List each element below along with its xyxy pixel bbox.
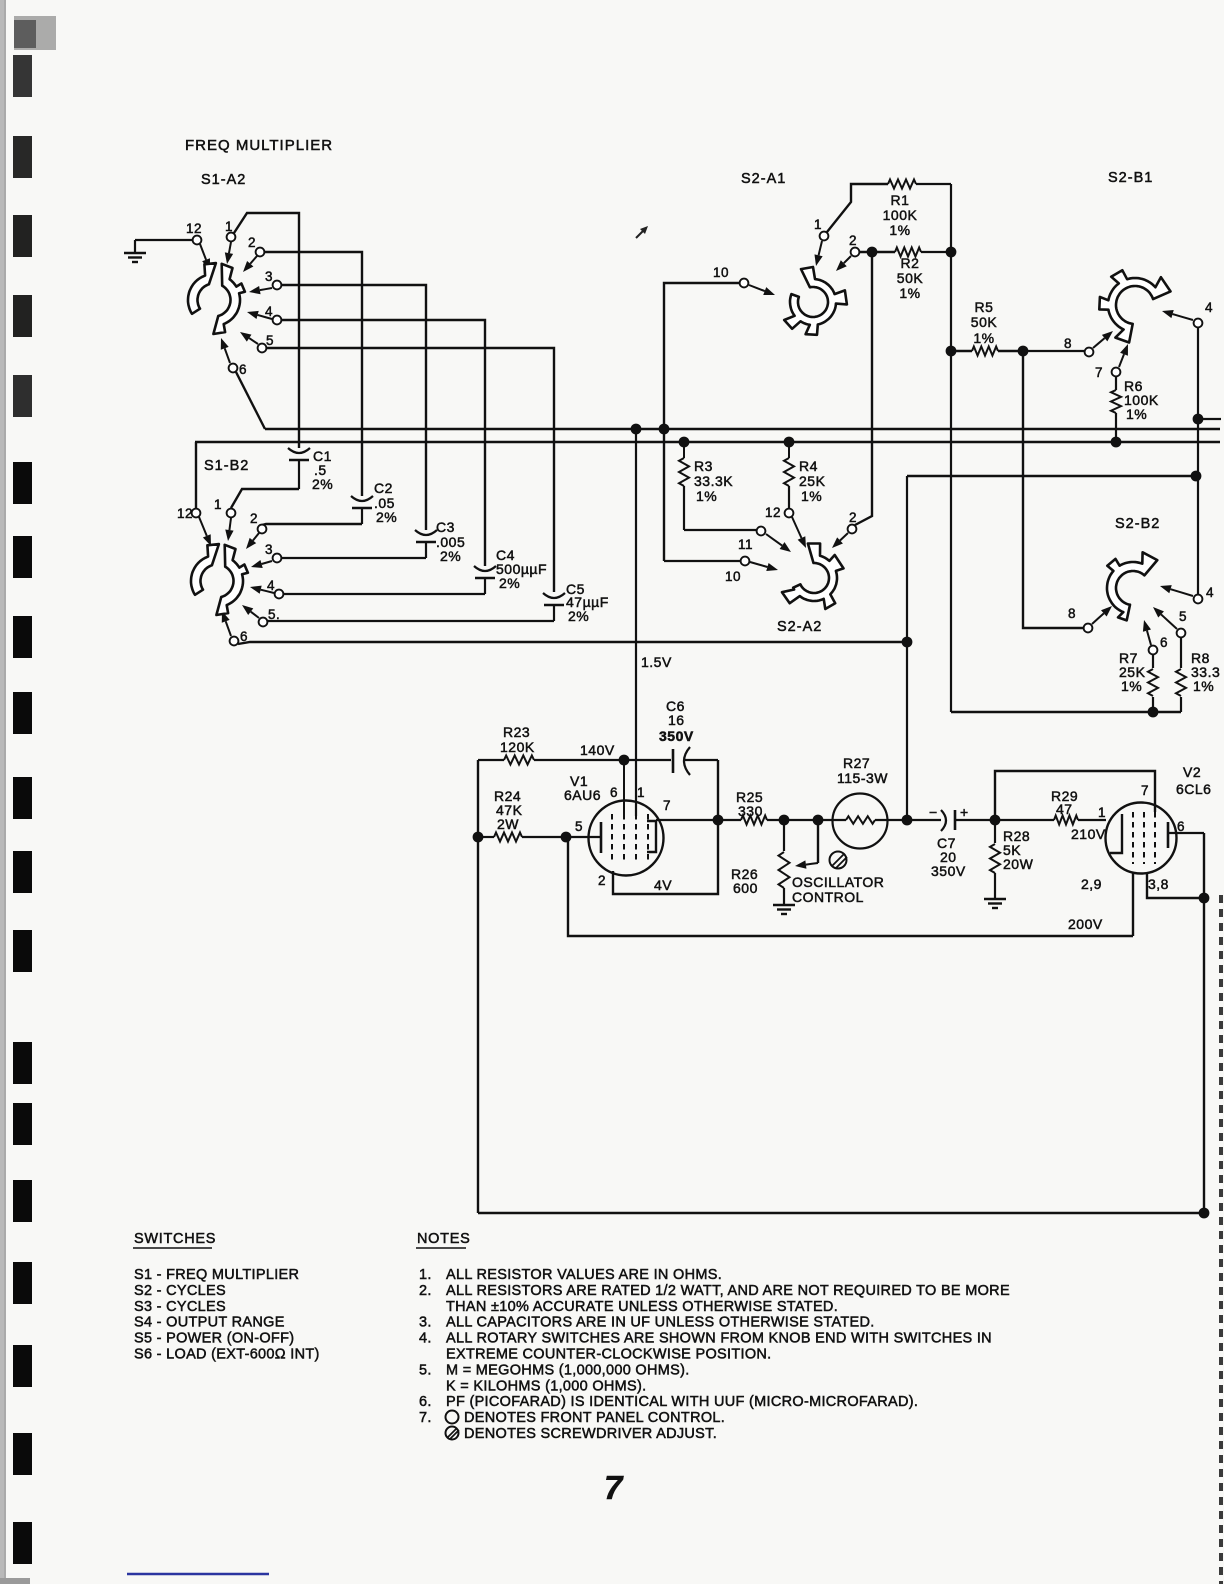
svg-text:S2-B2: S2-B2 (1115, 516, 1160, 532)
svg-text:ALL ROTARY SWITCHES ARE SHOWN: ALL ROTARY SWITCHES ARE SHOWN FROM KNOB … (446, 1331, 992, 1347)
svg-text:2W: 2W (497, 816, 519, 832)
svg-text:20W: 20W (1003, 856, 1034, 872)
S2-A2 contact 12 (785, 509, 794, 518)
svg-text:C2: C2 (374, 480, 393, 496)
svg-text:12: 12 (765, 505, 781, 520)
svg-text:1.5V: 1.5V (641, 654, 672, 670)
wire: S1-A2 c6 diagonal to bus A (236, 372, 265, 429)
svg-text:8: 8 (1068, 606, 1076, 621)
wire: main bus B (y=442) (195, 441, 1220, 443)
resistor R8 (1180, 638, 1182, 668)
wiper arrow 2 (844, 256, 851, 263)
svg-text:7.: 7. (419, 1410, 432, 1426)
note 7 screwdriver-adjust symbol (446, 1427, 459, 1440)
resistor R2 (895, 248, 921, 257)
svg-text:1.: 1. (419, 1267, 432, 1283)
svg-text:5: 5 (575, 819, 583, 834)
svg-text:2: 2 (849, 510, 857, 525)
svg-text:1%: 1% (889, 222, 910, 238)
svg-text:1%: 1% (973, 330, 994, 346)
ground R28 (984, 898, 1006, 900)
S2-B1 contact 7 (1112, 368, 1121, 377)
ground (S1-A2 pin 12) (124, 252, 146, 254)
svg-text:5.: 5. (419, 1362, 432, 1378)
svg-text:7: 7 (604, 1469, 624, 1506)
resistor R25 (741, 816, 767, 825)
svg-text:1: 1 (637, 785, 645, 800)
wire to S2-B1 contact 8 (1023, 350, 1084, 352)
junction R6 / bus B (1111, 437, 1122, 448)
screwdriver adjust symbol (830, 852, 847, 869)
svg-text:S2-A1: S2-A1 (741, 171, 786, 187)
svg-text:50K: 50K (971, 314, 998, 330)
resistor R7 (1152, 655, 1154, 668)
wire y476 to S2-B1 c4 column (907, 475, 1196, 477)
svg-text:3: 3 (265, 542, 273, 557)
svg-text:1%: 1% (1126, 406, 1147, 422)
svg-text:6: 6 (610, 785, 618, 800)
wiper arrow 8 (1093, 338, 1105, 348)
rotor S2-A1 (784, 267, 847, 335)
wiper arrow 3 (262, 561, 272, 564)
bottom-left grey corner (0, 1578, 30, 1584)
svg-text:R23: R23 (503, 724, 530, 740)
svg-text:5: 5 (1179, 609, 1187, 624)
wiper arrow 4 (261, 590, 274, 593)
blue pen line bottom (127, 1573, 269, 1575)
S2-B2 contact 4 (1194, 595, 1203, 604)
S1-A2 contact 12 (193, 236, 202, 245)
svg-text:25K: 25K (799, 473, 826, 489)
svg-text:2%: 2% (440, 548, 461, 564)
S2-A1 contact 2 (851, 248, 860, 257)
wire R4 to contact 12 (788, 486, 790, 508)
svg-text:50K: 50K (897, 270, 924, 286)
svg-text:DENOTES FRONT PANEL CONTROL.: DENOTES FRONT PANEL CONTROL. (464, 1410, 725, 1426)
wire: 200V rail (568, 837, 1133, 936)
wiper arrow 2 (250, 256, 257, 264)
svg-text:100K: 100K (883, 207, 918, 223)
S1-B2 contact 12 (192, 509, 201, 518)
wire: S1-A2 c2 to C2 riser (265, 252, 362, 496)
wire C5 bottom (553, 605, 555, 621)
wiper arrow 7 (1119, 354, 1124, 367)
svg-text:120K: 120K (500, 739, 535, 755)
wire C6 left (624, 759, 671, 761)
S2-B2 contact 5 (1177, 629, 1186, 638)
svg-text:2,9: 2,9 (1081, 876, 1102, 892)
ground R26 (773, 904, 795, 906)
junction R5 right / S2-B2 box riser (1018, 346, 1029, 357)
wiper arrow 2 (840, 533, 848, 540)
svg-text:12: 12 (186, 221, 202, 236)
wire C7 right (955, 819, 995, 821)
pin 5 lead (566, 836, 601, 838)
svg-text:4: 4 (1206, 585, 1214, 600)
svg-text:1%: 1% (1121, 678, 1142, 694)
svg-text:K = KILOHMS (1,000 OHMS).: K = KILOHMS (1,000 OHMS). (446, 1378, 647, 1394)
junction R3 top (679, 437, 690, 448)
wiper arrow 6 (1147, 631, 1151, 645)
V1 grids dashed (611, 814, 613, 862)
wire C2 bottom (361, 508, 363, 524)
svg-text:5.: 5. (268, 607, 280, 622)
svg-text:4.: 4. (419, 1331, 432, 1347)
junction x907 bottom (902, 815, 913, 826)
junction R2/x951 (946, 247, 957, 258)
svg-text:7: 7 (1141, 783, 1149, 798)
wire: main bus A (osc feedback, y=429) (265, 428, 1220, 430)
svg-text:C3: C3 (436, 519, 455, 535)
svg-text:600: 600 (733, 880, 758, 896)
svg-text:R1: R1 (891, 192, 910, 208)
wiper arrow 1 (229, 242, 231, 253)
wiper arrow 4 (1171, 589, 1193, 596)
resistor R28 (994, 820, 996, 843)
capacitor C7 (941, 810, 946, 831)
wire: S1-B2 c6 line to junction x907 (238, 642, 907, 644)
capacitor C3 (415, 530, 437, 535)
svg-text:16: 16 (668, 712, 685, 728)
junction bus A x635 riser (1.5V line) (631, 424, 642, 435)
S1-A2 contact 5 (258, 344, 267, 353)
svg-text:PF (PICOFARAD) IS IDENTICAL WI: PF (PICOFARAD) IS IDENTICAL WITH UUF (MI… (446, 1394, 918, 1410)
svg-text:S2-A2: S2-A2 (777, 619, 822, 635)
page left edge line (0, 0, 4, 1584)
svg-text:210V: 210V (1071, 826, 1106, 842)
top-left scan smudge (14, 16, 56, 50)
svg-text:OSCILLATOR: OSCILLATOR (792, 874, 884, 890)
svg-text:EXTREME COUNTER-CLOCKWISE POSI: EXTREME COUNTER-CLOCKWISE POSITION. (446, 1347, 772, 1363)
wiper arrow 3 (260, 288, 272, 290)
capacitor C4 (474, 566, 496, 571)
svg-text:33.3K: 33.3K (694, 473, 733, 489)
wire: S1-A2 c3 to C3 riser (282, 285, 426, 530)
junction R4 top (784, 437, 795, 448)
wiper arrow 12 (792, 517, 801, 538)
svg-text:V2: V2 (1183, 764, 1201, 780)
svg-text:S6 - LOAD (EXT-600Ω INT): S6 - LOAD (EXT-600Ω INT) (134, 1347, 320, 1363)
svg-text:1: 1 (225, 219, 233, 234)
svg-text:10: 10 (725, 569, 741, 584)
junction C7/R28/R29/feedback (990, 815, 1001, 826)
svg-text:1%: 1% (801, 488, 822, 504)
wire R3 to contact 11 (684, 529, 756, 531)
S2-B1 contact 4 (1194, 319, 1203, 328)
wire: S2-B1 c4 down to S2-B2 c4 (1197, 328, 1199, 594)
rheostat R26 (783, 820, 785, 851)
wire: feedback to V2 pin 7 (995, 771, 1155, 820)
note 7 front-panel circle symbol (446, 1411, 459, 1424)
junction plate rail/3,8 (1199, 893, 1210, 904)
svg-text:S1-A2: S1-A2 (201, 172, 246, 188)
wire C3 bottom (425, 542, 427, 558)
S1-B2 contact 2 (258, 525, 267, 534)
svg-text:S1-B2: S1-B2 (204, 458, 249, 474)
svg-text:47: 47 (1056, 801, 1073, 817)
S2-A2 contact 10 (741, 557, 750, 566)
svg-text:CONTROL: CONTROL (792, 889, 864, 905)
wiper arrow 10 (750, 562, 767, 567)
svg-text:3.: 3. (419, 1315, 432, 1331)
wiper arrow 12 (200, 244, 206, 260)
rotor S1-A2 (188, 263, 245, 334)
S2-B1 contact 8 (1085, 348, 1094, 357)
V1 pin 6 lead (623, 760, 625, 814)
S1-A2 contact 2 (256, 248, 265, 257)
wire: S1-A2 c5 to C5 riser (267, 348, 554, 592)
wire contact 2 to R2 (860, 251, 895, 253)
svg-text:R27: R27 (843, 755, 870, 771)
svg-text:2%: 2% (312, 476, 333, 492)
tube V2 6CL6 (1106, 803, 1177, 874)
wire: S1-A2 c4 to C4 riser (282, 320, 485, 566)
wiper arrow 4 (1173, 314, 1193, 320)
rotor S2-B2 (1107, 552, 1157, 620)
wiper arrow 1 (229, 518, 231, 530)
wire contact 10 left + riser x664 (664, 283, 739, 561)
svg-text:S2-B1: S2-B1 (1108, 170, 1153, 186)
resistor R23 (478, 759, 504, 761)
svg-text:1: 1 (214, 497, 222, 512)
svg-text:350V: 350V (931, 863, 966, 879)
wire: S1-A2 c1 riser to C1 (234, 213, 299, 448)
svg-text:6AU6: 6AU6 (564, 787, 601, 803)
resistor R6 (1115, 377, 1117, 390)
svg-text:6CL6: 6CL6 (1176, 781, 1211, 797)
resistor R1 (888, 180, 916, 189)
svg-text:1: 1 (814, 217, 822, 232)
svg-text:11: 11 (738, 537, 753, 552)
svg-text:2: 2 (248, 235, 256, 250)
wire R1 right (916, 183, 951, 185)
S2-A1 contact 1 (820, 232, 829, 241)
junction x907/c6 line (902, 637, 913, 648)
svg-text:S5 - POWER (ON-OFF): S5 - POWER (ON-OFF) (134, 1331, 294, 1347)
junction R7 bottom (1148, 707, 1159, 718)
cathode bar (600, 822, 603, 853)
svg-text:2%: 2% (568, 608, 589, 624)
wire: box riser x1023 to contact 8 (1023, 351, 1083, 628)
svg-text:10: 10 (713, 265, 729, 280)
capacitor C1 (288, 448, 310, 453)
svg-text:1%: 1% (696, 488, 717, 504)
svg-text:1%: 1% (899, 285, 920, 301)
S2-A1 contact 10 (740, 279, 749, 288)
svg-text:200V: 200V (1068, 916, 1103, 932)
svg-text:350V: 350V (659, 728, 694, 744)
R26 wiper feed (817, 820, 819, 863)
wire: V2 pins 2,9 to 200V rail (1132, 873, 1134, 936)
svg-text:3: 3 (265, 269, 273, 284)
rotor S1-B2 (191, 544, 248, 615)
junction bottom right corner (1199, 1208, 1210, 1219)
svg-text:R5: R5 (975, 299, 994, 315)
S1-B2 contact 4 (275, 590, 284, 599)
svg-text:6.: 6. (419, 1394, 432, 1410)
svg-text:NOTES: NOTES (417, 1231, 470, 1247)
svg-text:S3 - CYCLES: S3 - CYCLES (134, 1299, 226, 1315)
wire: contact1 to R1 (827, 184, 888, 232)
junction stub to page edge (1193, 414, 1204, 425)
wiper arrow 5 (1161, 614, 1177, 629)
junction R24/pin5/200V rail (561, 832, 572, 843)
junction R26 wiper riser (813, 815, 824, 826)
wiper arrow 6 (225, 348, 230, 363)
wire gnd to contact 12 (135, 239, 192, 241)
wire C6 right (685, 759, 718, 761)
junction R5 left (946, 346, 957, 357)
wire: S2-A2 c2 riser (855, 257, 872, 525)
S2-A2 contact 2 (848, 525, 857, 534)
S2-B2 contact 6 (1149, 646, 1158, 655)
right page-edge speckle (1219, 895, 1223, 1584)
lamp R27 (818, 819, 846, 821)
wiper arrow 5 (251, 612, 259, 618)
wire: right column x951 (950, 184, 952, 712)
svg-text:6: 6 (1177, 819, 1185, 834)
wire: C6 right down + plate junction (613, 760, 718, 894)
svg-text:2%: 2% (376, 509, 397, 525)
wire: R7/R8 bottom rail (951, 711, 1181, 713)
svg-text:S4 - OUTPUT RANGE: S4 - OUTPUT RANGE (134, 1315, 285, 1331)
svg-text:2.: 2. (419, 1283, 432, 1299)
C6 flat plate (672, 749, 675, 773)
svg-text:115-3W: 115-3W (837, 770, 888, 786)
V2 grid bracket (1110, 814, 1122, 853)
svg-text:140V: 140V (580, 742, 615, 758)
svg-text:2: 2 (250, 511, 258, 526)
svg-text:M = MEGOHMS (1,000,000 OHMS).: M = MEGOHMS (1,000,000 OHMS). (446, 1362, 690, 1378)
svg-text:5: 5 (266, 333, 274, 348)
svg-text:7: 7 (663, 798, 671, 813)
V2 plate (1167, 822, 1170, 848)
S1-B2 contact 5 (259, 618, 268, 627)
binding holes (13, 55, 32, 97)
svg-text:1%: 1% (1193, 678, 1214, 694)
S1-B2 contact 3 (273, 554, 282, 563)
svg-text:3,8: 3,8 (1148, 876, 1169, 892)
svg-text:−: − (929, 804, 938, 820)
plate lead to R25 (656, 819, 718, 821)
svg-text:1: 1 (1098, 805, 1106, 820)
svg-text:330: 330 (738, 803, 763, 819)
junction bus A / contact-10 riser (659, 424, 670, 435)
svg-text:2: 2 (598, 873, 606, 888)
wire C1 bottom (298, 460, 300, 489)
junction plate/R25 (713, 815, 724, 826)
svg-text:6: 6 (239, 362, 247, 377)
svg-text:12: 12 (177, 506, 193, 521)
svg-text:4V: 4V (654, 877, 672, 893)
svg-text:DENOTES SCREWDRIVER ADJUST.: DENOTES SCREWDRIVER ADJUST. (464, 1426, 717, 1442)
wiper arrow 8 (1092, 613, 1104, 624)
svg-text:4: 4 (1205, 300, 1213, 315)
svg-text:S2 - CYCLES: S2 - CYCLES (134, 1283, 226, 1299)
wire: V2 pins 3,8 (1147, 873, 1204, 898)
svg-text:R3: R3 (694, 458, 713, 474)
svg-text:6: 6 (1160, 635, 1168, 650)
junction S2-A1 c2 / S2-A2 c2 riser (867, 247, 878, 258)
V1 plate (647, 821, 656, 852)
S1-A2 contact 6 (229, 364, 238, 373)
rotor S2-B1 (1099, 270, 1170, 342)
svg-text:FREQ MULTIPLIER: FREQ MULTIPLIER (185, 137, 333, 154)
svg-text:S1 - FREQ MULTIPLIER: S1 - FREQ MULTIPLIER (134, 1267, 299, 1283)
svg-text:+: + (960, 804, 969, 820)
svg-text:2%: 2% (499, 575, 520, 591)
S2-A2 contact 11 (757, 527, 766, 536)
svg-text:R4: R4 (799, 458, 818, 474)
wiper arrow 4 (258, 315, 272, 319)
wiper arrow 12 (199, 517, 207, 536)
rotor S2-A2 (782, 544, 844, 610)
V2 grids dashed (1132, 812, 1134, 864)
svg-text:ALL RESISTOR VALUES ARE IN OHM: ALL RESISTOR VALUES ARE IN OHMS. (446, 1267, 722, 1283)
svg-text:8: 8 (1064, 336, 1072, 351)
S1-A2 contact 3 (273, 281, 282, 290)
wiper arrow 5 (249, 338, 258, 344)
svg-text:THAN ±10% ACCURATE UNLESS OTHE: THAN ±10% ACCURATE UNLESS OTHERWISE STAT… (446, 1299, 838, 1315)
svg-text:2: 2 (849, 233, 857, 248)
svg-text:R2: R2 (901, 255, 920, 271)
S2-B2 contact 8 (1084, 624, 1093, 633)
resistor R29 (995, 819, 1054, 821)
wiper arrow 1 (819, 241, 822, 255)
C7 flat plate (954, 810, 957, 830)
wire x907 down to osc line (906, 476, 908, 820)
S1-A2 contact 1 (227, 233, 236, 242)
S1-B2 contact 6 (230, 637, 239, 646)
wire stub off page (1198, 418, 1221, 420)
R26 wiper arrow (806, 863, 818, 865)
svg-text:ALL CAPACITORS ARE IN UF UNLES: ALL CAPACITORS ARE IN UF UNLESS OTHERWIS… (446, 1315, 875, 1331)
wire: S2-A2 c10 left to riser x664 (664, 560, 740, 562)
junction R23/pin6/C6 (619, 755, 630, 766)
junction R26 top (779, 815, 790, 826)
tube V1 6AU6 (589, 801, 664, 876)
svg-text:SWITCHES: SWITCHES (134, 1231, 216, 1247)
wire 1.5V riser to V1 pin1 (635, 429, 637, 816)
svg-text:7: 7 (1095, 365, 1103, 380)
capacitor C5 (543, 593, 565, 598)
wiper arrow 11 (766, 534, 782, 546)
capacitor C2 (351, 496, 373, 501)
junction left rail/R24 (473, 832, 484, 843)
S1-A2 contact 4 (273, 316, 282, 325)
wire C4 bottom (484, 578, 486, 594)
wire: left rail x478 (477, 760, 479, 1213)
S1-B2 contact 1 (227, 509, 236, 518)
plate lead (1168, 832, 1204, 834)
wire: S1-B2 contact 12 riser to bus B (195, 442, 197, 508)
wiper arrow 2 (253, 533, 259, 540)
wiper arrow 10 (749, 285, 765, 291)
scan pen-mark arrow artifact (636, 228, 646, 238)
svg-text:ALL RESISTORS ARE RATED 1/2 WA: ALL RESISTORS ARE RATED 1/2 WATT, AND AR… (446, 1283, 1010, 1299)
wire: output right rail down to bottom rail (478, 833, 1204, 1213)
wiper arrow 6 (226, 621, 231, 636)
